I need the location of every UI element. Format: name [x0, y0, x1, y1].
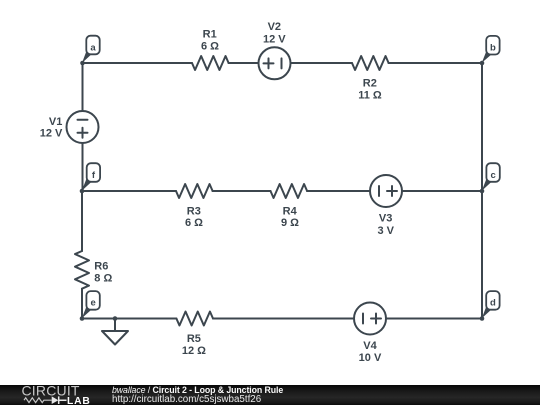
- svg-text:6 Ω: 6 Ω: [185, 217, 203, 229]
- node tag d: [482, 291, 500, 318]
- svg-text:b: b: [490, 43, 496, 54]
- svg-text:8 Ω: 8 Ω: [94, 273, 112, 285]
- svg-text:R1: R1: [203, 28, 217, 40]
- footer bar: [0, 385, 540, 405]
- resistor R3: [176, 184, 213, 198]
- wire top-left a to R1: [83, 62, 193, 64]
- voltage source V1: [67, 111, 99, 143]
- wire V1 to f: [82, 143, 84, 191]
- wire b to c right vertical: [481, 63, 483, 191]
- CircuitLab logo: [0, 385, 110, 405]
- label R6: [94, 261, 112, 285]
- svg-text:12 Ω: 12 Ω: [182, 345, 206, 357]
- footer title text: [112, 385, 283, 395]
- svg-text:LAB: LAB: [67, 396, 91, 405]
- svg-text:11 Ω: 11 Ω: [358, 89, 382, 101]
- svg-text:d: d: [490, 298, 496, 309]
- svg-text:V1: V1: [49, 116, 62, 128]
- wire V2 to R2: [291, 62, 353, 64]
- wire R3 to R4: [213, 190, 271, 192]
- svg-text:R2: R2: [363, 77, 377, 89]
- wire f to R3: [82, 190, 176, 192]
- svg-text:6 Ω: 6 Ω: [201, 41, 219, 53]
- node tag e: [82, 291, 100, 318]
- svg-text:R5: R5: [187, 333, 201, 345]
- wire e to R5 bottom: [82, 318, 176, 320]
- svg-text:R6: R6: [94, 261, 108, 273]
- ground: [102, 319, 128, 345]
- label R3: [185, 205, 203, 229]
- wire R4 to V3: [307, 190, 370, 192]
- resistor R2: [352, 56, 389, 70]
- wire c to d right vertical: [481, 191, 483, 319]
- svg-text:3 V: 3 V: [377, 225, 394, 237]
- resistor R6: [75, 251, 89, 289]
- wire R2 to b: [389, 62, 483, 64]
- label V4: [359, 340, 382, 364]
- svg-text:c: c: [490, 170, 495, 181]
- wire R5 to V4: [213, 318, 354, 320]
- wire V3 to c: [402, 190, 482, 192]
- wire V4 to d: [386, 318, 482, 320]
- wire f to R6 left vertical: [81, 191, 83, 251]
- svg-text:12 V: 12 V: [40, 128, 63, 140]
- wire a to V1 left vertical: [82, 63, 84, 111]
- node tag a: [82, 36, 100, 63]
- svg-text:V2: V2: [268, 21, 281, 33]
- label R4: [281, 205, 299, 229]
- node A junction dot: [80, 61, 85, 66]
- resistor R4: [271, 184, 308, 198]
- resistor R1: [192, 56, 229, 70]
- ground junction dot: [113, 316, 118, 321]
- svg-text:a: a: [90, 42, 96, 53]
- footer url text: [112, 394, 261, 405]
- label V3: [377, 213, 394, 238]
- svg-text:9 Ω: 9 Ω: [281, 217, 299, 229]
- label V2: [263, 21, 286, 46]
- node tag f: [82, 163, 100, 191]
- svg-text:10 V: 10 V: [359, 352, 382, 364]
- svg-text:V3: V3: [379, 213, 392, 225]
- resistor R5: [176, 312, 213, 326]
- svg-text:V4: V4: [363, 340, 377, 352]
- svg-text:R3: R3: [187, 205, 201, 217]
- node B junction dot: [480, 61, 485, 66]
- svg-text:R4: R4: [283, 205, 298, 217]
- node D junction dot: [480, 316, 485, 321]
- node C junction dot: [480, 189, 485, 194]
- node tag b: [482, 36, 500, 63]
- node tag c: [482, 163, 500, 191]
- node F junction dot: [80, 189, 85, 194]
- wire R1 to V2: [229, 62, 259, 64]
- voltage source V4: [354, 303, 386, 335]
- voltage source V3: [370, 175, 402, 207]
- voltage source V2: [259, 47, 291, 79]
- label R2: [358, 77, 382, 101]
- node E junction dot: [80, 316, 85, 321]
- svg-text:12 V: 12 V: [263, 33, 286, 45]
- label V1: [40, 116, 63, 140]
- svg-text:e: e: [90, 298, 95, 309]
- label R5: [182, 333, 206, 357]
- wire R6 to e: [81, 289, 83, 319]
- label R1: [201, 28, 219, 52]
